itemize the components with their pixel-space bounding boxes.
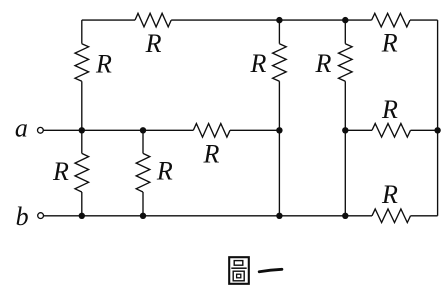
caption glyph 圖 inner 回 center box	[237, 274, 241, 278]
node top fourth	[342, 17, 348, 23]
svg-text:R: R	[250, 49, 267, 78]
wire left vertical below row a	[81, 130, 83, 153]
wire fourth vertical upper lead	[344, 20, 346, 44]
node b-row middle	[276, 213, 282, 219]
caption glyph 圖 top small box	[234, 261, 243, 266]
resistor R (row a middle horizontal)	[193, 124, 230, 138]
node b-row fourth	[342, 213, 348, 219]
wire row a: terminal to middle resistor	[43, 129, 193, 131]
wire top: resistor to top-right corner	[410, 19, 438, 21]
resistor R (middle column vertical)	[273, 44, 287, 82]
caption glyph 圖 middle horizontal stroke	[231, 267, 246, 269]
wire left vertical upper lead	[81, 20, 83, 44]
resistor R (row b right horizontal)	[372, 209, 411, 223]
resistor R (left column lower, vertical)	[75, 153, 89, 192]
wire row a right: fourth vertical to resistor	[345, 129, 372, 131]
resistor R (top-right horizontal)	[372, 13, 410, 27]
resistor R (fourth column vertical)	[339, 44, 353, 82]
wire row b: terminal to resistor	[44, 215, 372, 217]
svg-text:R: R	[381, 28, 398, 57]
resistor R (row a right horizontal)	[372, 124, 411, 138]
node top middle	[276, 17, 282, 23]
wire row a: resistor to middle vertical node	[230, 129, 279, 131]
caption 圖一 (Figure 1), drawn as vector strokes	[229, 257, 282, 284]
wire middle vertical to row b	[278, 81, 280, 216]
wire second vertical upper lead	[142, 130, 144, 153]
node a-row middle	[276, 127, 282, 133]
svg-text:a: a	[15, 114, 28, 143]
wire row b: resistor to bottom-right corner	[411, 215, 438, 217]
svg-text:R: R	[145, 29, 162, 58]
node a-row left	[79, 127, 85, 133]
node a-row fourth	[342, 127, 348, 133]
svg-text:R: R	[52, 157, 69, 186]
svg-text:R: R	[95, 49, 112, 78]
svg-text:R: R	[156, 157, 173, 186]
wire right vertical	[437, 20, 439, 216]
svg-text:R: R	[315, 49, 332, 78]
wire top: left corner to R1 zigzag	[82, 19, 135, 21]
resistor R (top-left horizontal)	[135, 13, 171, 27]
caption glyph 圖 inner 回 outer box	[233, 271, 244, 281]
wire fourth vertical to row b	[344, 81, 346, 216]
svg-text:b: b	[16, 202, 29, 231]
node b-row left	[79, 213, 85, 219]
wire middle vertical upper lead	[278, 20, 280, 44]
svg-text:R: R	[203, 139, 220, 168]
node a-row right edge	[434, 127, 440, 133]
wire left vertical to node a row	[81, 81, 83, 130]
resistor R (second column vertical)	[136, 153, 150, 192]
wire second vertical to row b	[142, 192, 144, 216]
node a-row second	[140, 127, 146, 133]
wire left vertical to row b	[81, 192, 83, 216]
terminal b open circle	[38, 213, 44, 219]
svg-text:R: R	[381, 180, 398, 209]
node b-row second	[140, 213, 146, 219]
caption glyph 圖 outer box	[229, 257, 249, 284]
svg-text:R: R	[381, 95, 398, 124]
terminal a open circle	[38, 127, 44, 133]
resistor R (left column upper, vertical)	[75, 44, 89, 82]
wire row a right: resistor to right edge	[411, 129, 438, 131]
wire top: R1 to top-right resistor	[171, 19, 371, 21]
caption glyph 一 horizontal stroke	[259, 269, 282, 272]
